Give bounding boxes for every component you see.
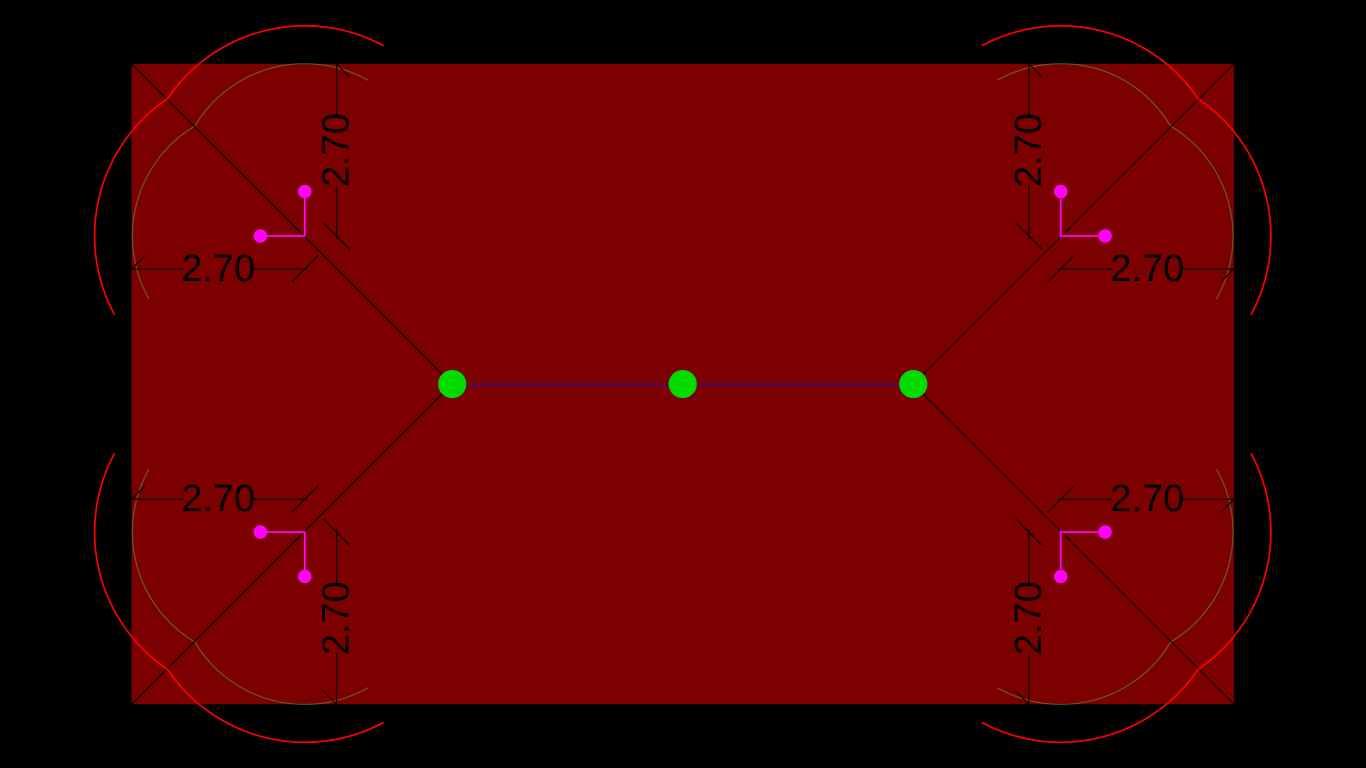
diagonal wire bottom-right corner to pad xyxy=(913,384,1234,704)
dimension top-right horizontal 2.70 xyxy=(1048,256,1248,282)
marker bottom-left xyxy=(254,525,312,583)
dimension bottom-right vertical 2.70 xyxy=(1016,519,1042,718)
green arc pair bottom-right xyxy=(997,469,1233,705)
diagonal wire top-left corner to pad xyxy=(132,64,453,384)
red arc pair top-left xyxy=(95,26,384,315)
green arc pair bottom-left xyxy=(132,469,368,705)
svg-text:2.70: 2.70 xyxy=(1008,113,1050,187)
svg-text:2.70: 2.70 xyxy=(1110,248,1184,290)
diagonal wire bottom-left corner to pad xyxy=(132,384,453,704)
marker bottom-right xyxy=(1054,525,1112,583)
dimension bottom-right horizontal 2.70 xyxy=(1048,486,1248,512)
dimension top-right vertical 2.70 xyxy=(1016,51,1042,250)
svg-text:2.70: 2.70 xyxy=(316,113,358,187)
dimension bottom-left horizontal 2.70 xyxy=(118,486,318,512)
svg-text:2.70: 2.70 xyxy=(181,248,255,290)
trace pad1-pad3 xyxy=(452,383,913,385)
pad 3 xyxy=(899,370,927,398)
svg-text:2.70: 2.70 xyxy=(181,478,255,520)
svg-text:2.70: 2.70 xyxy=(1110,478,1184,520)
svg-text:2.70: 2.70 xyxy=(316,581,358,655)
green arc pair top-right xyxy=(997,64,1233,300)
dimension bottom-left vertical 2.70 xyxy=(323,519,349,718)
green arc pair top-left xyxy=(132,64,368,300)
marker top-right xyxy=(1054,185,1112,243)
PCB board copper pour xyxy=(132,64,1234,704)
pad 1 xyxy=(438,370,466,398)
svg-text:2.70: 2.70 xyxy=(1008,581,1050,655)
red arc pair top-right xyxy=(982,26,1271,315)
dimension top-left vertical 2.70 xyxy=(323,51,349,250)
marker top-left xyxy=(254,185,312,243)
diagonal wire top-right corner to pad xyxy=(913,64,1234,384)
pad 2 xyxy=(669,370,697,398)
red arc pair bottom-right xyxy=(982,453,1271,742)
dimension top-left horizontal 2.70 xyxy=(118,256,318,282)
red arc pair bottom-left xyxy=(95,453,384,742)
